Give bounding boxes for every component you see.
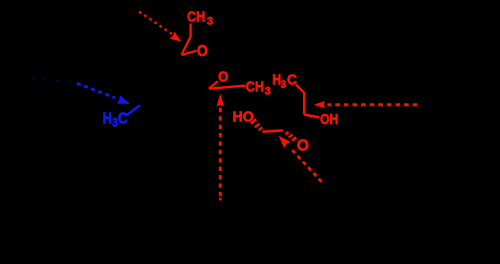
hashed wedge bond HO to stereocenter (red) <box>251 119 262 130</box>
svg-text:O: O <box>197 43 208 60</box>
svg-text:3: 3 <box>265 85 271 97</box>
bond H3C to quaternary carbon (red) <box>296 85 304 93</box>
bond vertical C-C (red) <box>303 92 306 114</box>
hashed wedge bond carbon to O (red) <box>285 132 296 141</box>
svg-text:3: 3 <box>207 15 213 27</box>
arrow A4 (red dashed diagonal, pointing up-left at hemiketal carbon) <box>279 136 322 182</box>
bond vertex to O (epoxide, red) <box>181 51 196 55</box>
bond H3C to ring carbon (blue) <box>126 105 140 115</box>
svg-text:OH: OH <box>320 111 338 128</box>
svg-text:CH: CH <box>246 78 264 95</box>
bond ring carbon to CH3 (methoxy, red) <box>209 86 245 89</box>
svg-text:O: O <box>218 69 228 85</box>
bond CH3 to C (vertical, red) <box>189 23 191 37</box>
arrow A5 (blue dashed, pointing down-right at methyl) <box>31 79 130 104</box>
svg-text:3: 3 <box>112 118 117 130</box>
bond O to ring carbon (red) <box>209 81 218 89</box>
arrow A2 (red dashed vertical, pointing up at methoxy carbon) <box>217 94 224 201</box>
bond C to OH (red) <box>304 115 319 118</box>
svg-text:O: O <box>297 138 309 155</box>
svg-text:C: C <box>118 111 128 128</box>
bond C to ring vertex (red) <box>181 37 190 55</box>
arrow A3 (red dashed horizontal, pointing left at alcohol carbon) <box>314 101 418 108</box>
svg-text:CH: CH <box>187 8 205 25</box>
svg-text:3: 3 <box>281 79 287 91</box>
arrow A1 (red dashed, top-left, pointing down-right at epoxide) <box>139 12 182 42</box>
svg-text:H: H <box>103 110 112 127</box>
bond stereocenter to carbonyl carbon (red) <box>262 131 283 132</box>
